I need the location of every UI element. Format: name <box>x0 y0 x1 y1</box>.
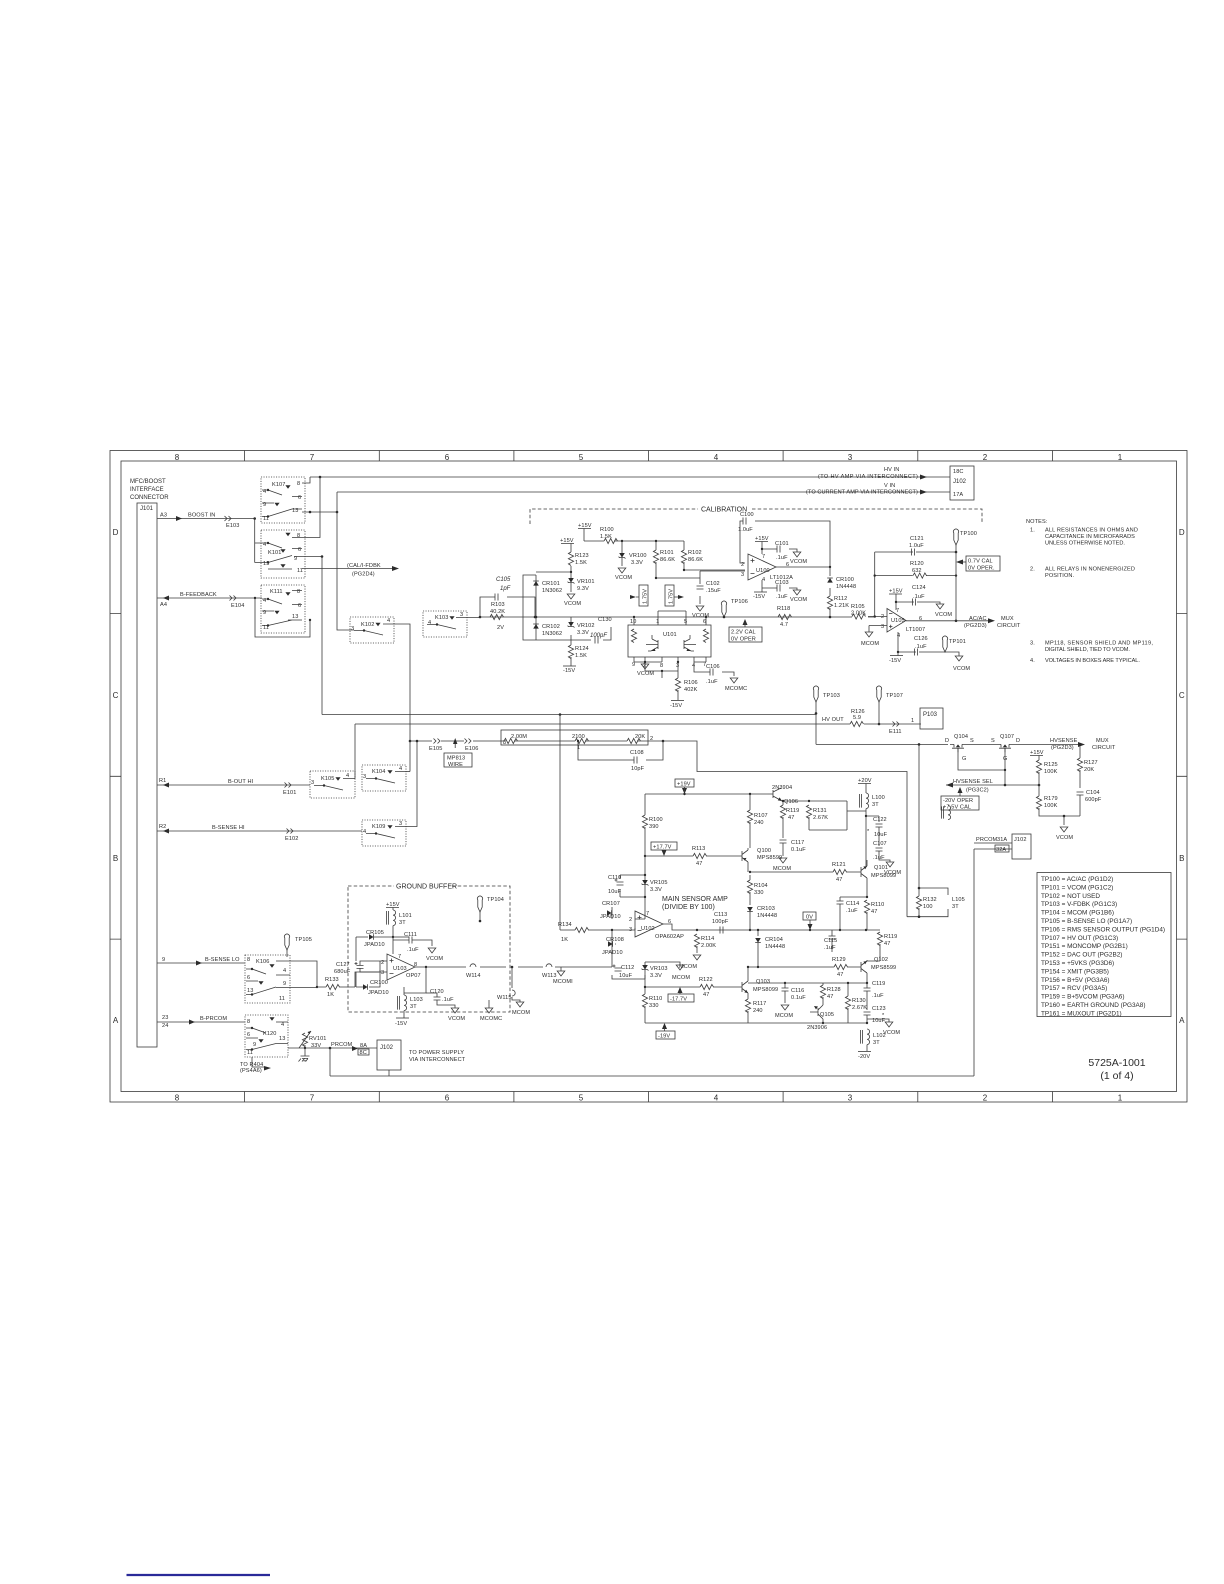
wire K109-3 up to 2.00M rail <box>406 741 417 827</box>
wire BOOST IN loop to K101 <box>255 519 262 563</box>
svg-text:S: S <box>991 738 995 744</box>
connector J101 <box>137 503 157 1047</box>
resistor R127 <box>1079 744 1081 758</box>
svg-text:0.7V CAL: 0.7V CAL <box>968 559 993 565</box>
svg-text:6: 6 <box>445 453 450 462</box>
svg-text:3.3V: 3.3V <box>577 630 589 636</box>
svg-text:S: S <box>970 738 974 744</box>
svg-text:B: B <box>1179 854 1184 863</box>
svg-text:240: 240 <box>753 1008 763 1014</box>
boxed 0.7V CAL / 0V OPER <box>966 556 1000 571</box>
svg-text:17A: 17A <box>953 492 963 498</box>
svg-text:9.3V: 9.3V <box>577 586 589 592</box>
svg-text:W114: W114 <box>466 973 481 979</box>
svg-text:TP151 = MONCOMP (PG2B1): TP151 = MONCOMP (PG2B1) <box>1041 943 1128 950</box>
diode CR100 <box>829 566 831 568</box>
svg-text:R125: R125 <box>1044 762 1058 768</box>
svg-text:R117: R117 <box>753 1001 766 1007</box>
svg-text:C130: C130 <box>598 617 612 623</box>
svg-text:TP103: TP103 <box>823 693 840 699</box>
resistor R103 <box>490 614 504 619</box>
resistor R126 <box>850 721 864 726</box>
svg-text:C110: C110 <box>608 875 621 881</box>
svg-text:MCOM: MCOM <box>672 975 690 981</box>
wire R134 input <box>560 928 635 930</box>
svg-text:TP160 = EARTH GROUND (PG3A8): TP160 = EARTH GROUND (PG3A8) <box>1041 1002 1145 1009</box>
svg-text:2.00M: 2.00M <box>511 734 527 740</box>
svg-text:4: 4 <box>762 577 765 583</box>
svg-text:L100: L100 <box>872 795 885 801</box>
svg-text:WIRE: WIRE <box>448 762 463 768</box>
ground MCOMC stub <box>488 1000 490 1008</box>
svg-text:2100: 2100 <box>572 734 585 740</box>
svg-text:R2: R2 <box>159 824 166 830</box>
svg-text:E101: E101 <box>283 790 296 796</box>
zone ticks top <box>245 451 1053 462</box>
svg-text:.15uF: .15uF <box>706 588 721 594</box>
svg-text:MAIN SENSOR AMP: MAIN SENSOR AMP <box>662 896 728 903</box>
svg-text:1.21K: 1.21K <box>834 603 849 609</box>
svg-text:Q102: Q102 <box>874 957 888 963</box>
svg-text:1N3062: 1N3062 <box>542 588 562 594</box>
svg-text:(PG2D4): (PG2D4) <box>352 572 375 578</box>
wire BOOST IN <box>157 518 255 520</box>
svg-text:8: 8 <box>660 663 663 669</box>
svg-text:.1uF: .1uF <box>846 908 858 914</box>
svg-text:TP106 = RMS SENSOR OUTPUT (PG1: TP106 = RMS SENSOR OUTPUT (PG1D4) <box>1041 926 1165 933</box>
border outer <box>110 451 1187 1103</box>
earth ground RV101 <box>304 1048 306 1056</box>
svg-text:100: 100 <box>923 904 933 910</box>
svg-text:(PG3C2): (PG3C2) <box>966 788 989 794</box>
svg-text:K106: K106 <box>256 959 269 965</box>
resistor R101 <box>656 541 684 578</box>
svg-text:3.3V: 3.3V <box>650 887 662 893</box>
svg-text:R123: R123 <box>575 553 589 559</box>
svg-text:0.1uF: 0.1uF <box>791 847 806 853</box>
svg-text:-15V: -15V <box>563 668 575 674</box>
svg-text:11: 11 <box>279 996 285 1002</box>
U101 transistor array box <box>628 625 711 657</box>
svg-text:K104: K104 <box>372 769 385 775</box>
svg-text:CR103: CR103 <box>757 906 775 912</box>
svg-text:R119: R119 <box>884 934 897 940</box>
svg-text:C122: C122 <box>873 817 887 823</box>
svg-text:3: 3 <box>399 821 402 827</box>
svg-text:E106: E106 <box>465 746 478 752</box>
svg-text:TP101 = VCOM (PG1C2): TP101 = VCOM (PG1C2) <box>1041 884 1113 891</box>
zener VR101 <box>568 578 575 584</box>
svg-text:R104: R104 <box>754 883 768 889</box>
svg-text:2: 2 <box>983 1094 988 1103</box>
svg-text:+7.5V CAL: +7.5V CAL <box>943 805 971 811</box>
svg-text:MP118, SENSOR SHIELD AND MP119: MP118, SENSOR SHIELD AND MP119, <box>1045 641 1153 647</box>
capacitor C119 <box>866 983 868 1010</box>
svg-text:TP104: TP104 <box>487 897 504 903</box>
svg-text:13: 13 <box>292 614 298 620</box>
svg-text:2.67K: 2.67K <box>813 815 828 821</box>
svg-text:1N4448: 1N4448 <box>765 944 785 950</box>
svg-text:47: 47 <box>696 861 702 867</box>
svg-text:11: 11 <box>247 1050 253 1056</box>
wire HVSENSE feed <box>816 713 948 888</box>
wire K101-9 to long vertical <box>302 556 322 558</box>
svg-text:1N4448: 1N4448 <box>836 584 856 590</box>
svg-text:K105: K105 <box>321 776 334 782</box>
resistor R118 <box>778 614 792 619</box>
svg-text:P103: P103 <box>923 712 938 718</box>
wire left column to U102 <box>635 875 645 919</box>
svg-text:R127: R127 <box>1084 760 1098 766</box>
resistor R115 <box>879 929 881 931</box>
svg-text:R110: R110 <box>871 902 884 908</box>
svg-text:330: 330 <box>754 890 764 896</box>
svg-text:E105: E105 <box>429 746 442 752</box>
svg-text:CR100: CR100 <box>370 980 388 986</box>
svg-text:R133: R133 <box>325 977 339 983</box>
capacitor C127 <box>360 961 380 972</box>
wire V-FDBK line <box>322 714 816 716</box>
svg-text:C104: C104 <box>1086 790 1100 796</box>
svg-text:TP101: TP101 <box>949 639 966 645</box>
svg-text:HVSENSE SEL: HVSENSE SEL <box>953 779 993 785</box>
svg-text:6: 6 <box>445 1094 450 1103</box>
FET Q107 <box>997 744 1013 752</box>
svg-text:MCOM: MCOM <box>775 1013 793 1019</box>
svg-text:2.2V CAL: 2.2V CAL <box>731 630 756 636</box>
wire V IN line <box>337 491 950 493</box>
svg-text:2N3906: 2N3906 <box>807 1025 827 1031</box>
svg-text:C106: C106 <box>706 664 720 670</box>
relay K103 <box>423 611 467 637</box>
svg-text:7: 7 <box>310 453 315 462</box>
svg-text:3: 3 <box>363 774 366 780</box>
svg-text:1pF: 1pF <box>500 586 511 592</box>
capacitor C110 <box>620 875 645 897</box>
svg-text:*: * <box>867 829 870 835</box>
svg-text:0V: 0V <box>806 915 813 921</box>
svg-text:8C: 8C <box>360 1050 367 1056</box>
svg-text:-15V: -15V <box>670 703 682 709</box>
svg-text:INTERFACE: INTERFACE <box>130 487 164 493</box>
svg-text:(PG2D3): (PG2D3) <box>1051 745 1074 751</box>
svg-text:OPA602AP: OPA602AP <box>655 934 684 940</box>
svg-text:100K: 100K <box>1044 803 1058 809</box>
svg-text:VCOM: VCOM <box>448 1016 465 1022</box>
svg-text:-19V: -19V <box>658 1034 670 1040</box>
svg-text:7: 7 <box>896 608 899 614</box>
svg-text:VR102: VR102 <box>577 623 595 629</box>
svg-text:C111: C111 <box>404 932 417 938</box>
svg-text:(1 of 4): (1 of 4) <box>1100 1070 1133 1082</box>
svg-text:C101: C101 <box>775 541 789 547</box>
relay K109 <box>362 820 406 846</box>
wire vertical feed U102 <box>559 715 561 931</box>
svg-text:32A: 32A <box>996 847 1006 853</box>
connector J102 right <box>1012 834 1031 859</box>
svg-text:1.0uF: 1.0uF <box>909 543 924 549</box>
relay K106 <box>245 955 290 1003</box>
svg-text:C102: C102 <box>706 581 720 587</box>
svg-text:1K: 1K <box>327 992 334 998</box>
wire U101 pins bottom <box>634 657 706 671</box>
svg-text:C117: C117 <box>791 840 804 846</box>
wire K104-4 up to 2.00M rail <box>406 771 410 773</box>
svg-text:ALL RELAYS IN NONENERGIZED: ALL RELAYS IN NONENERGIZED <box>1045 567 1135 573</box>
capacitor C130 <box>571 627 611 640</box>
svg-text:PRCOM: PRCOM <box>976 837 998 843</box>
svg-text:8: 8 <box>247 957 250 963</box>
relay K120 <box>245 1015 288 1057</box>
resistor R123 <box>568 552 573 566</box>
svg-text:K107: K107 <box>272 482 285 488</box>
wire CAL/I-FDBK <box>302 568 396 570</box>
svg-text:CR107: CR107 <box>602 901 620 907</box>
svg-text:5.9: 5.9 <box>853 715 861 721</box>
svg-text:R131: R131 <box>813 808 827 814</box>
boxed -17.7V <box>668 994 694 1002</box>
svg-text:.1uF: .1uF <box>872 993 884 999</box>
resistor R128 <box>820 985 825 999</box>
supply -15V U100 <box>761 580 763 592</box>
svg-text:VCOM: VCOM <box>637 671 654 677</box>
svg-text:20K: 20K <box>1084 767 1094 773</box>
boxed 2.2V CAL / 0V OPER <box>729 627 762 642</box>
svg-text:-15V: -15V <box>753 594 765 600</box>
svg-text:3: 3 <box>460 612 463 618</box>
svg-text:K102: K102 <box>361 622 374 628</box>
svg-text:8A: 8A <box>360 1043 367 1049</box>
svg-text:4: 4 <box>897 633 900 639</box>
svg-text:0V OPER: 0V OPER <box>731 637 756 643</box>
zone ticks right <box>1177 613 1188 939</box>
svg-text:VCOM: VCOM <box>615 575 632 581</box>
capacitor C122 <box>866 816 879 822</box>
svg-text:1.0uF: 1.0uF <box>738 527 753 533</box>
ground MCOM <box>779 858 787 863</box>
zener VR100 <box>621 541 623 553</box>
svg-text:TP107: TP107 <box>886 693 903 699</box>
op-amp U105 <box>887 609 906 633</box>
footer blue line <box>127 1574 271 1576</box>
relay K111 <box>261 585 305 633</box>
svg-text:CR102: CR102 <box>542 624 560 630</box>
svg-text:TP100: TP100 <box>960 531 977 537</box>
svg-text:R100: R100 <box>600 527 614 533</box>
ground VCOM HVSENSE <box>1063 816 1065 825</box>
svg-text:2.00K: 2.00K <box>701 943 716 949</box>
svg-text:Q107: Q107 <box>1000 734 1014 740</box>
svg-text:9: 9 <box>263 502 266 508</box>
svg-text:R113: R113 <box>692 846 705 852</box>
wire mid rail <box>748 966 861 968</box>
svg-text:B-SENSE LO: B-SENSE LO <box>205 957 240 963</box>
ground VCOM <box>567 594 575 599</box>
resistor R100 <box>604 538 618 543</box>
wire long vertical zone7 <box>321 557 323 715</box>
svg-text:R112: R112 <box>834 596 847 602</box>
zener VR102 <box>536 635 571 645</box>
svg-text:47: 47 <box>788 815 794 821</box>
resistor R114 <box>694 934 699 948</box>
svg-text:VCOM: VCOM <box>1056 835 1073 841</box>
wire B-SENSE HI <box>157 830 362 832</box>
svg-text:47: 47 <box>703 992 709 998</box>
inductor L100 <box>860 793 869 809</box>
wire between FETs and out <box>966 743 1078 745</box>
wire B-SENSE LO <box>157 962 245 964</box>
svg-text:8: 8 <box>175 1094 180 1103</box>
svg-text:(PS4A6): (PS4A6) <box>240 1068 262 1074</box>
svg-text:AC/AC: AC/AC <box>969 616 987 622</box>
test point TP105 <box>284 934 289 950</box>
capacitor C111 <box>393 936 412 938</box>
svg-text:POSITION.: POSITION. <box>1045 573 1075 579</box>
resistor R120 feedback <box>875 575 956 577</box>
svg-text:MCOM: MCOM <box>861 641 879 647</box>
svg-text:680uF: 680uF <box>334 969 351 975</box>
svg-text:K101: K101 <box>268 550 281 556</box>
resistor R125 <box>1036 760 1041 774</box>
svg-text:MFC/BOOST: MFC/BOOST <box>130 479 166 485</box>
wire PRCOM to J102 <box>974 843 1012 1076</box>
svg-text:4: 4 <box>283 968 286 974</box>
svg-text:VCOM: VCOM <box>935 612 952 618</box>
wire cal input rail <box>480 616 876 618</box>
svg-text:100K: 100K <box>1044 769 1058 775</box>
capacitor C115 <box>831 930 833 952</box>
svg-text:10uF: 10uF <box>619 973 633 979</box>
test point TP106 <box>721 601 726 617</box>
svg-text:VCOM: VCOM <box>953 666 970 672</box>
wire U103 out <box>415 966 612 968</box>
boxed 1.75V labels <box>639 585 648 606</box>
svg-text:VR105: VR105 <box>650 880 668 886</box>
svg-text:6: 6 <box>247 1032 250 1038</box>
svg-text:MPS8599: MPS8599 <box>757 855 782 861</box>
svg-text:9: 9 <box>263 610 266 616</box>
svg-text:HV IN: HV IN <box>884 467 899 473</box>
wire K120 out <box>288 1047 377 1049</box>
svg-text:E102: E102 <box>285 836 298 842</box>
svg-text:13: 13 <box>279 1036 285 1042</box>
svg-text:390: 390 <box>649 824 659 830</box>
svg-text:MCOM: MCOM <box>773 866 791 872</box>
jumper E106 <box>465 739 472 744</box>
svg-text:1.5K: 1.5K <box>575 653 587 659</box>
svg-text:1N3062: 1N3062 <box>542 631 562 637</box>
jumper E102 <box>287 829 294 834</box>
svg-text:4: 4 <box>263 542 266 548</box>
svg-text:3T: 3T <box>873 1040 880 1046</box>
svg-text:CIRCUIT: CIRCUIT <box>997 623 1021 629</box>
svg-text:C119: C119 <box>872 981 885 987</box>
svg-text:100pF: 100pF <box>712 919 729 925</box>
wire to U100 inputs <box>656 570 745 578</box>
svg-text:8: 8 <box>247 1019 250 1025</box>
relay K107 <box>261 477 305 523</box>
svg-text:K111: K111 <box>270 589 283 595</box>
svg-text:PRCOM: PRCOM <box>331 1042 353 1048</box>
capacitor C101 <box>762 549 797 552</box>
svg-text:8: 8 <box>297 533 300 539</box>
resistor R179 <box>1036 796 1041 810</box>
capacitor C120 <box>437 993 455 1008</box>
svg-text:3.: 3. <box>1030 641 1035 647</box>
svg-text:7: 7 <box>646 911 649 917</box>
svg-text:4: 4 <box>346 773 349 779</box>
resistor R109 <box>642 994 647 1008</box>
svg-text:1: 1 <box>577 745 580 751</box>
svg-text:3: 3 <box>381 970 384 976</box>
svg-text:3.3V: 3.3V <box>650 973 662 979</box>
svg-text:18C: 18C <box>953 469 964 475</box>
svg-text:MPS8099: MPS8099 <box>753 987 778 993</box>
svg-text:C103: C103 <box>775 580 789 586</box>
capacitor C100 feedback <box>740 521 830 567</box>
wire 2.00M out to sensor loop <box>648 741 907 917</box>
svg-text:C113: C113 <box>714 912 727 918</box>
relay K105 <box>310 771 355 798</box>
svg-text:VCOM: VCOM <box>692 613 709 619</box>
svg-text:R120: R120 <box>910 561 924 567</box>
svg-text:R129: R129 <box>832 957 846 963</box>
resistor R107 <box>747 810 752 824</box>
svg-text:UNLESS OTHERWISE NOTED.: UNLESS OTHERWISE NOTED. <box>1045 541 1125 547</box>
svg-text:CR100: CR100 <box>836 577 854 583</box>
inductor L103 <box>403 993 405 995</box>
svg-text:86.6K: 86.6K <box>688 557 703 563</box>
svg-text:0V OPER.: 0V OPER. <box>968 566 995 572</box>
resistor R117 <box>745 999 750 1013</box>
svg-text:JPAD10: JPAD10 <box>368 990 389 996</box>
svg-text:-15V: -15V <box>889 658 901 664</box>
svg-text:3.3V: 3.3V <box>631 560 643 566</box>
svg-text:E103: E103 <box>226 523 239 529</box>
wire B-FEEDBACK <box>157 597 262 599</box>
svg-text:2: 2 <box>629 917 632 923</box>
svg-text:TP105 = B-SENSE LO (PG1A7): TP105 = B-SENSE LO (PG1A7) <box>1041 918 1132 925</box>
jumper E105 <box>434 739 441 744</box>
svg-text:L102: L102 <box>873 1033 886 1039</box>
jumper W113 <box>546 964 552 967</box>
svg-text:VR103: VR103 <box>650 966 668 972</box>
wire U105 out <box>906 620 988 622</box>
resistor R130 <box>845 996 850 1010</box>
svg-text:R103: R103 <box>491 602 505 608</box>
svg-text:10: 10 <box>630 619 636 625</box>
svg-text:U105: U105 <box>891 618 905 624</box>
inductor L102 <box>861 1029 870 1045</box>
MFC/BOOST INTERFACE CONNECTOR label <box>130 479 169 501</box>
wire HVSENSE SEL <box>946 784 1039 786</box>
svg-text:VCOM: VCOM <box>564 601 581 607</box>
svg-text:B: B <box>113 854 118 863</box>
svg-text:33V: 33V <box>311 1043 321 1049</box>
svg-text:R124: R124 <box>575 646 589 652</box>
svg-text:MPS8599: MPS8599 <box>871 965 896 971</box>
svg-text:R114: R114 <box>701 936 714 942</box>
svg-text:-20V: -20V <box>858 1054 870 1060</box>
wire bottom rail <box>645 1022 867 1024</box>
op-amp U102 <box>635 911 663 937</box>
svg-text:C107: C107 <box>873 841 887 847</box>
diode CR102 <box>533 624 539 629</box>
svg-text:JPAD10: JPAD10 <box>600 914 621 920</box>
svg-text:NOTES:: NOTES: <box>1026 519 1048 525</box>
capacitor C123 <box>864 1012 871 1015</box>
svg-text:9: 9 <box>162 957 165 963</box>
